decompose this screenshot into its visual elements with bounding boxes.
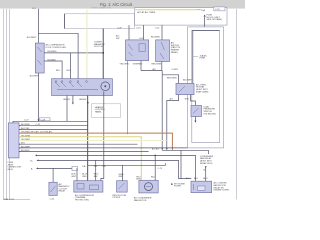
arrow into panel xyxy=(87,102,89,104)
blower bottom pin 1 wire xyxy=(72,96,74,103)
svg-text:GRN/W: GRN/W xyxy=(79,99,86,101)
arrow note right of fan xyxy=(171,183,173,185)
switch box PB-B a/c switch xyxy=(156,40,170,62)
svg-text:A/C: A/C xyxy=(153,68,157,71)
fuse 15A symbol xyxy=(198,9,201,11)
svg-text:RED/GRN: RED/GRN xyxy=(152,63,162,65)
svg-text:PANEL): PANEL) xyxy=(171,51,179,54)
arrow pin1 xyxy=(72,103,74,105)
wire fan right pin xyxy=(154,155,156,180)
svg-text:PICKUP: PICKUP xyxy=(113,197,121,199)
svg-text:B/W: B/W xyxy=(185,99,189,101)
wire row4 yellow xyxy=(19,137,141,181)
svg-text:PROTECTOR): PROTECTOR) xyxy=(75,200,89,202)
svg-text:B-: B- xyxy=(31,169,33,171)
wire thermostat feed xyxy=(192,31,194,84)
svg-text:SW: SW xyxy=(116,38,119,40)
svg-text:PANEL: PANEL xyxy=(95,110,103,113)
page border line bottom xyxy=(4,199,31,201)
wire row6 xyxy=(19,143,138,145)
wire row5 pale xyxy=(19,140,167,142)
wire pin drop 2 xyxy=(142,25,144,40)
relay block inner box xyxy=(192,31,220,143)
svg-text:BLU/RED: BLU/RED xyxy=(21,124,31,126)
relay block outer box xyxy=(188,27,224,148)
relay box RB xyxy=(191,181,212,192)
arrowhead right xyxy=(166,148,168,150)
svg-text:BLU: BLU xyxy=(21,143,26,145)
svg-text:CLUTCH: CLUTCH xyxy=(94,46,103,48)
wire L3 to B1 xyxy=(76,168,78,180)
heater control panel text box xyxy=(92,104,121,118)
long bus L2b xyxy=(88,163,166,165)
svg-text:WHT: WHT xyxy=(119,176,124,178)
blower bottom pin 2 wire dark xyxy=(87,96,89,122)
svg-text:RELAY BOX): RELAY BOX) xyxy=(200,162,213,165)
aux box B2 xyxy=(117,181,128,192)
svg-text:GRN/RED: GRN/RED xyxy=(133,63,143,65)
wire row2 xyxy=(19,128,88,130)
svg-text:Fig. 1: A/C Circuit: Fig. 1: A/C Circuit xyxy=(100,2,133,7)
svg-text:LED: LED xyxy=(139,38,144,40)
svg-text:BLU/WHT: BLU/WHT xyxy=(183,79,193,81)
svg-text:BLK/WHT: BLK/WHT xyxy=(30,75,40,77)
bus relay top drop right xyxy=(208,150,210,154)
svg-text:1988 COLT: 1988 COLT xyxy=(4,199,15,201)
wire PB-A right pin xyxy=(140,61,142,71)
fuse label tick xyxy=(193,56,198,58)
wire RB drop xyxy=(205,167,207,182)
junction connector box JB xyxy=(65,14,135,29)
compressor box B1 xyxy=(74,181,103,192)
svg-text:BLU/WHT: BLU/WHT xyxy=(27,37,37,39)
wire compressor clutch feed xyxy=(102,29,104,83)
arrowhead left xyxy=(161,148,163,150)
svg-text:(ON RECVR): (ON RECVR) xyxy=(204,113,217,115)
svg-text:BLU/RED: BLU/RED xyxy=(48,51,58,53)
svg-text:(BLK): (BLK) xyxy=(8,169,14,171)
arrow fuse block xyxy=(204,15,206,17)
node junction dot A xyxy=(102,52,104,54)
yellow fuse wire xyxy=(135,9,198,11)
wire blower to compressor pin2 xyxy=(87,121,89,180)
svg-text:BLU/WHT: BLU/WHT xyxy=(21,146,31,148)
connector box on L3 xyxy=(72,166,77,170)
svg-text:C-HTR: C-HTR xyxy=(172,69,179,71)
wire SW2 bottom xyxy=(194,117,196,122)
svg-text:WHT: WHT xyxy=(71,176,76,178)
svg-text:BLU: BLU xyxy=(203,178,208,180)
switch box SW2 xyxy=(191,106,202,117)
svg-text:YEL/RED (W/O A/C CUT RELAY): YEL/RED (W/O A/C CUT RELAY) xyxy=(21,131,52,134)
arrow below SW2 xyxy=(195,121,197,123)
svg-text:YEL/GRN: YEL/GRN xyxy=(120,63,130,65)
wire motor bottom long xyxy=(101,92,104,181)
wire pin drop 1 xyxy=(128,25,130,40)
svg-text:BLU/YEL: BLU/YEL xyxy=(21,128,30,130)
header bar xyxy=(0,0,245,9)
yellow wire blower feed xyxy=(86,10,88,79)
wire A relay output xyxy=(44,52,103,54)
svg-text:BLU/BLK: BLU/BLK xyxy=(48,59,57,61)
fuse box top xyxy=(135,8,227,26)
wire feed to compressor lock controller xyxy=(37,9,39,43)
node dot L1 fan xyxy=(154,155,156,157)
wire PB-B pin xyxy=(161,62,163,71)
wire row8 xyxy=(19,151,149,153)
svg-text:GRN: GRN xyxy=(136,179,141,181)
wire B2 feed xyxy=(121,165,123,180)
page border line right xyxy=(235,9,237,199)
svg-text:LOCK CONTROLLER: LOCK CONTROLLER xyxy=(46,47,67,49)
wire fuse down xyxy=(204,17,206,31)
switch box PB-A heater control xyxy=(126,40,149,61)
wire row1 xyxy=(19,125,88,127)
long bus L2 xyxy=(39,160,192,178)
fan motor circle xyxy=(145,183,153,191)
wire down from bus1 xyxy=(161,71,163,151)
arrow clutch feed xyxy=(102,79,104,81)
label box top right xyxy=(214,7,225,11)
bus wire to connector xyxy=(13,121,88,123)
svg-text:RED: RED xyxy=(82,176,87,178)
svg-text:BLU/BLK: BLU/BLK xyxy=(21,150,30,152)
wire jog to thermostat xyxy=(162,75,178,84)
svg-text:EVAP CASE): EVAP CASE) xyxy=(196,90,209,93)
relay PB1 A/C compressor lock controller xyxy=(35,43,44,73)
blower box BB xyxy=(52,79,113,96)
svg-text:GRN/B: GRN/B xyxy=(63,99,70,101)
motor circle M xyxy=(101,82,110,91)
label C-58 xyxy=(40,118,51,121)
svg-text:BLU: BLU xyxy=(151,176,156,178)
svg-text:FAN MOTOR: FAN MOTOR xyxy=(134,199,147,202)
svg-text:C/D: C/D xyxy=(102,166,106,168)
svg-text:YEL/GRN: YEL/GRN xyxy=(21,136,31,138)
wire thermostat bottom left xyxy=(167,95,179,151)
relay box RB condenser fan relay feed xyxy=(180,150,182,178)
svg-text:BLU/RED: BLU/RED xyxy=(151,37,161,39)
wire pin drop 3 xyxy=(161,25,163,40)
inner resistor rect xyxy=(139,44,145,52)
wire row3 orange xyxy=(19,133,172,150)
internal switch xyxy=(55,82,98,90)
svg-text:A/C A/C: A/C A/C xyxy=(152,147,160,150)
wire PB-A left pin tan xyxy=(127,61,129,135)
svg-text:BLK: BLK xyxy=(94,176,99,178)
wire L3 branch to B0 xyxy=(52,168,54,182)
long bus L3 xyxy=(38,167,72,169)
wire row7 xyxy=(19,147,187,149)
wire blower pin to bus xyxy=(66,96,68,122)
svg-text:SIDE OF DASH): SIDE OF DASH) xyxy=(207,18,223,21)
svg-text:JOINT CONNECTOR: JOINT CONNECTOR xyxy=(91,7,111,9)
wire B1 pin3 drop xyxy=(95,160,97,180)
svg-text:FILTER: FILTER xyxy=(174,186,182,188)
wire orange continuation gray xyxy=(162,149,208,151)
svg-text:BLU: BLU xyxy=(194,178,199,180)
svg-text:BLU: BLU xyxy=(67,70,72,72)
relay box B0 xyxy=(49,182,57,195)
wire branch to blower box xyxy=(38,33,78,78)
svg-text:ENGINE COMP): ENGINE COMP) xyxy=(214,190,230,192)
svg-text:HOT AT ALL TIMES: HOT AT ALL TIMES xyxy=(137,11,156,14)
wire thermostat bottom right xyxy=(191,95,196,106)
svg-text:RED/GRN: RED/GRN xyxy=(167,78,177,80)
wire A drop xyxy=(70,53,72,79)
svg-text:RELAY: RELAY xyxy=(59,190,66,193)
svg-text:15A: 15A xyxy=(201,9,205,12)
fan motor box FB xyxy=(139,180,158,193)
wire B relay output xyxy=(44,61,62,79)
long bus L1 xyxy=(37,155,196,181)
svg-text:YEL/WHT: YEL/WHT xyxy=(21,139,31,141)
page border line left xyxy=(4,9,10,200)
svg-text:A/C: A/C xyxy=(186,177,190,180)
svg-text:BLU: BLU xyxy=(56,70,61,72)
connector pin ticks xyxy=(19,125,20,127)
arrow bus join xyxy=(38,120,40,122)
bus wire distribution xyxy=(192,30,220,32)
svg-text:FUSE: FUSE xyxy=(200,58,206,60)
thermostat box TH xyxy=(176,83,194,94)
connector block CB xyxy=(8,123,19,158)
arrow RB xyxy=(205,166,207,168)
bus1 wire xyxy=(141,70,162,72)
wire relay bottom xyxy=(37,73,39,121)
